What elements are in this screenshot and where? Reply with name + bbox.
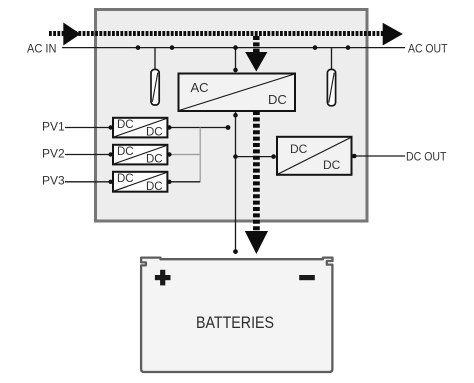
svg-text:DC: DC — [117, 146, 134, 158]
wire PV3 output — [168, 181, 200, 183]
arrow DC bus to battery (thick dashed) — [245, 111, 268, 254]
node PV2 output — [167, 152, 171, 156]
wire PV2 input — [65, 154, 112, 156]
svg-text:DC OUT: DC OUT — [406, 150, 447, 164]
svg-text:PV1: PV1 — [42, 119, 65, 133]
svg-text:DC: DC — [146, 154, 163, 166]
wire PV3 input — [65, 181, 112, 183]
converter U5 DC/DC output — [277, 137, 352, 175]
converter U4 DC/DC MPPT 3 — [113, 172, 167, 193]
node DC/DC output — [352, 154, 357, 159]
arrow AC feed into charger (dashed) — [245, 36, 267, 72]
node AC junction 2 — [170, 45, 175, 50]
svg-text:BATTERIES: BATTERIES — [196, 313, 274, 332]
battery minus terminal mark — [299, 275, 315, 280]
battery BT1 — [141, 258, 332, 372]
svg-text:DC: DC — [146, 127, 163, 139]
svg-text:DC: DC — [290, 142, 308, 156]
svg-text:DC: DC — [268, 92, 287, 107]
node below charger — [233, 113, 238, 118]
AC power bus (thick dashed) — [49, 31, 383, 36]
wire PV1 output to DC node — [168, 127, 228, 129]
node PV3 input — [108, 180, 112, 184]
wire PV2 output — [168, 154, 200, 156]
wire PV collector bus (vertical) — [199, 128, 201, 182]
svg-text:DC: DC — [146, 181, 163, 193]
inverter enclosure panel — [96, 10, 368, 222]
wire AC line — [62, 47, 405, 49]
svg-text:DC: DC — [117, 173, 134, 185]
arrow AC in — [63, 23, 80, 46]
wire DC link to battery (thin) — [235, 112, 237, 252]
svg-text:DC: DC — [117, 119, 134, 131]
svg-text:AC IN: AC IN — [27, 41, 57, 55]
wire DC link to DC/DC converter — [236, 156, 276, 158]
converter U3 DC/DC MPPT 2 — [113, 145, 167, 166]
node stub bottom — [233, 68, 238, 73]
node PV2 input — [108, 152, 112, 156]
node PV bus end — [226, 125, 231, 130]
svg-text:PV2: PV2 — [42, 147, 65, 161]
node PV3 output — [167, 180, 171, 184]
node at DC/DC input — [271, 154, 276, 159]
node stub top — [233, 45, 238, 50]
node DC link junction — [233, 154, 238, 159]
svg-text:PV3: PV3 — [42, 174, 65, 188]
svg-text:DC: DC — [323, 158, 341, 172]
fuse F1 — [151, 48, 159, 105]
node AC junction 4 — [346, 45, 351, 50]
node AC junction 1 — [136, 45, 141, 50]
wire AC to charger stub — [235, 48, 237, 72]
node PV1 output — [167, 125, 171, 129]
converter U1 AC/DC charger — [179, 74, 296, 112]
converter U2 DC/DC MPPT 1 — [113, 118, 167, 139]
arrow AC out — [383, 23, 403, 46]
svg-text:AC OUT: AC OUT — [408, 42, 448, 56]
fuse F2 — [327, 48, 335, 106]
svg-text:AC: AC — [191, 80, 209, 95]
wire DC OUT — [353, 155, 406, 157]
node battery terminal end — [233, 249, 238, 254]
battery plus terminal mark — [155, 270, 171, 286]
node AC junction 3 — [313, 45, 318, 50]
node PV1 input — [108, 125, 112, 129]
wire PV1 input — [65, 127, 112, 129]
